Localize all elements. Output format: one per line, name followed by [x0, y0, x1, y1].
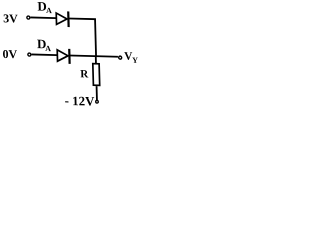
- wire output node down to resistor: [95, 56, 97, 64]
- diode DA (top) cathode bar: [67, 11, 70, 27]
- svg-text:R: R: [80, 68, 89, 80]
- svg-text:A: A: [46, 6, 52, 15]
- terminal 3V input: [27, 16, 30, 19]
- resistor R body: [93, 64, 100, 86]
- svg-text:0V: 0V: [2, 47, 17, 61]
- wire top diode cathode to corner: [69, 17, 96, 20]
- wire bottom diode cathode to output terminal: [70, 55, 118, 56]
- wire corner down to output node: [94, 19, 97, 56]
- terminal -12V supply: [96, 100, 99, 103]
- svg-text:3V: 3V: [3, 11, 18, 25]
- node VY output label: [124, 51, 138, 65]
- wire resistor to -12V terminal: [96, 86, 98, 100]
- diode DA (bottom) label: [37, 36, 52, 53]
- diode DA (bottom) cathode bar: [68, 49, 71, 64]
- wire 3V terminal to diode DA anode: [31, 16, 56, 19]
- svg-text:A: A: [45, 44, 51, 53]
- wire 0V terminal to diode DA anode: [32, 53, 57, 56]
- svg-text:Y: Y: [132, 56, 138, 65]
- diode DA (bottom) triangle: [57, 50, 68, 62]
- terminal 0V input: [28, 53, 31, 56]
- diode DA (top) label: [37, 0, 52, 15]
- diode DA (top) triangle: [56, 13, 67, 25]
- terminal VY output: [119, 56, 122, 59]
- svg-text:- 12V: - 12V: [65, 94, 96, 109]
